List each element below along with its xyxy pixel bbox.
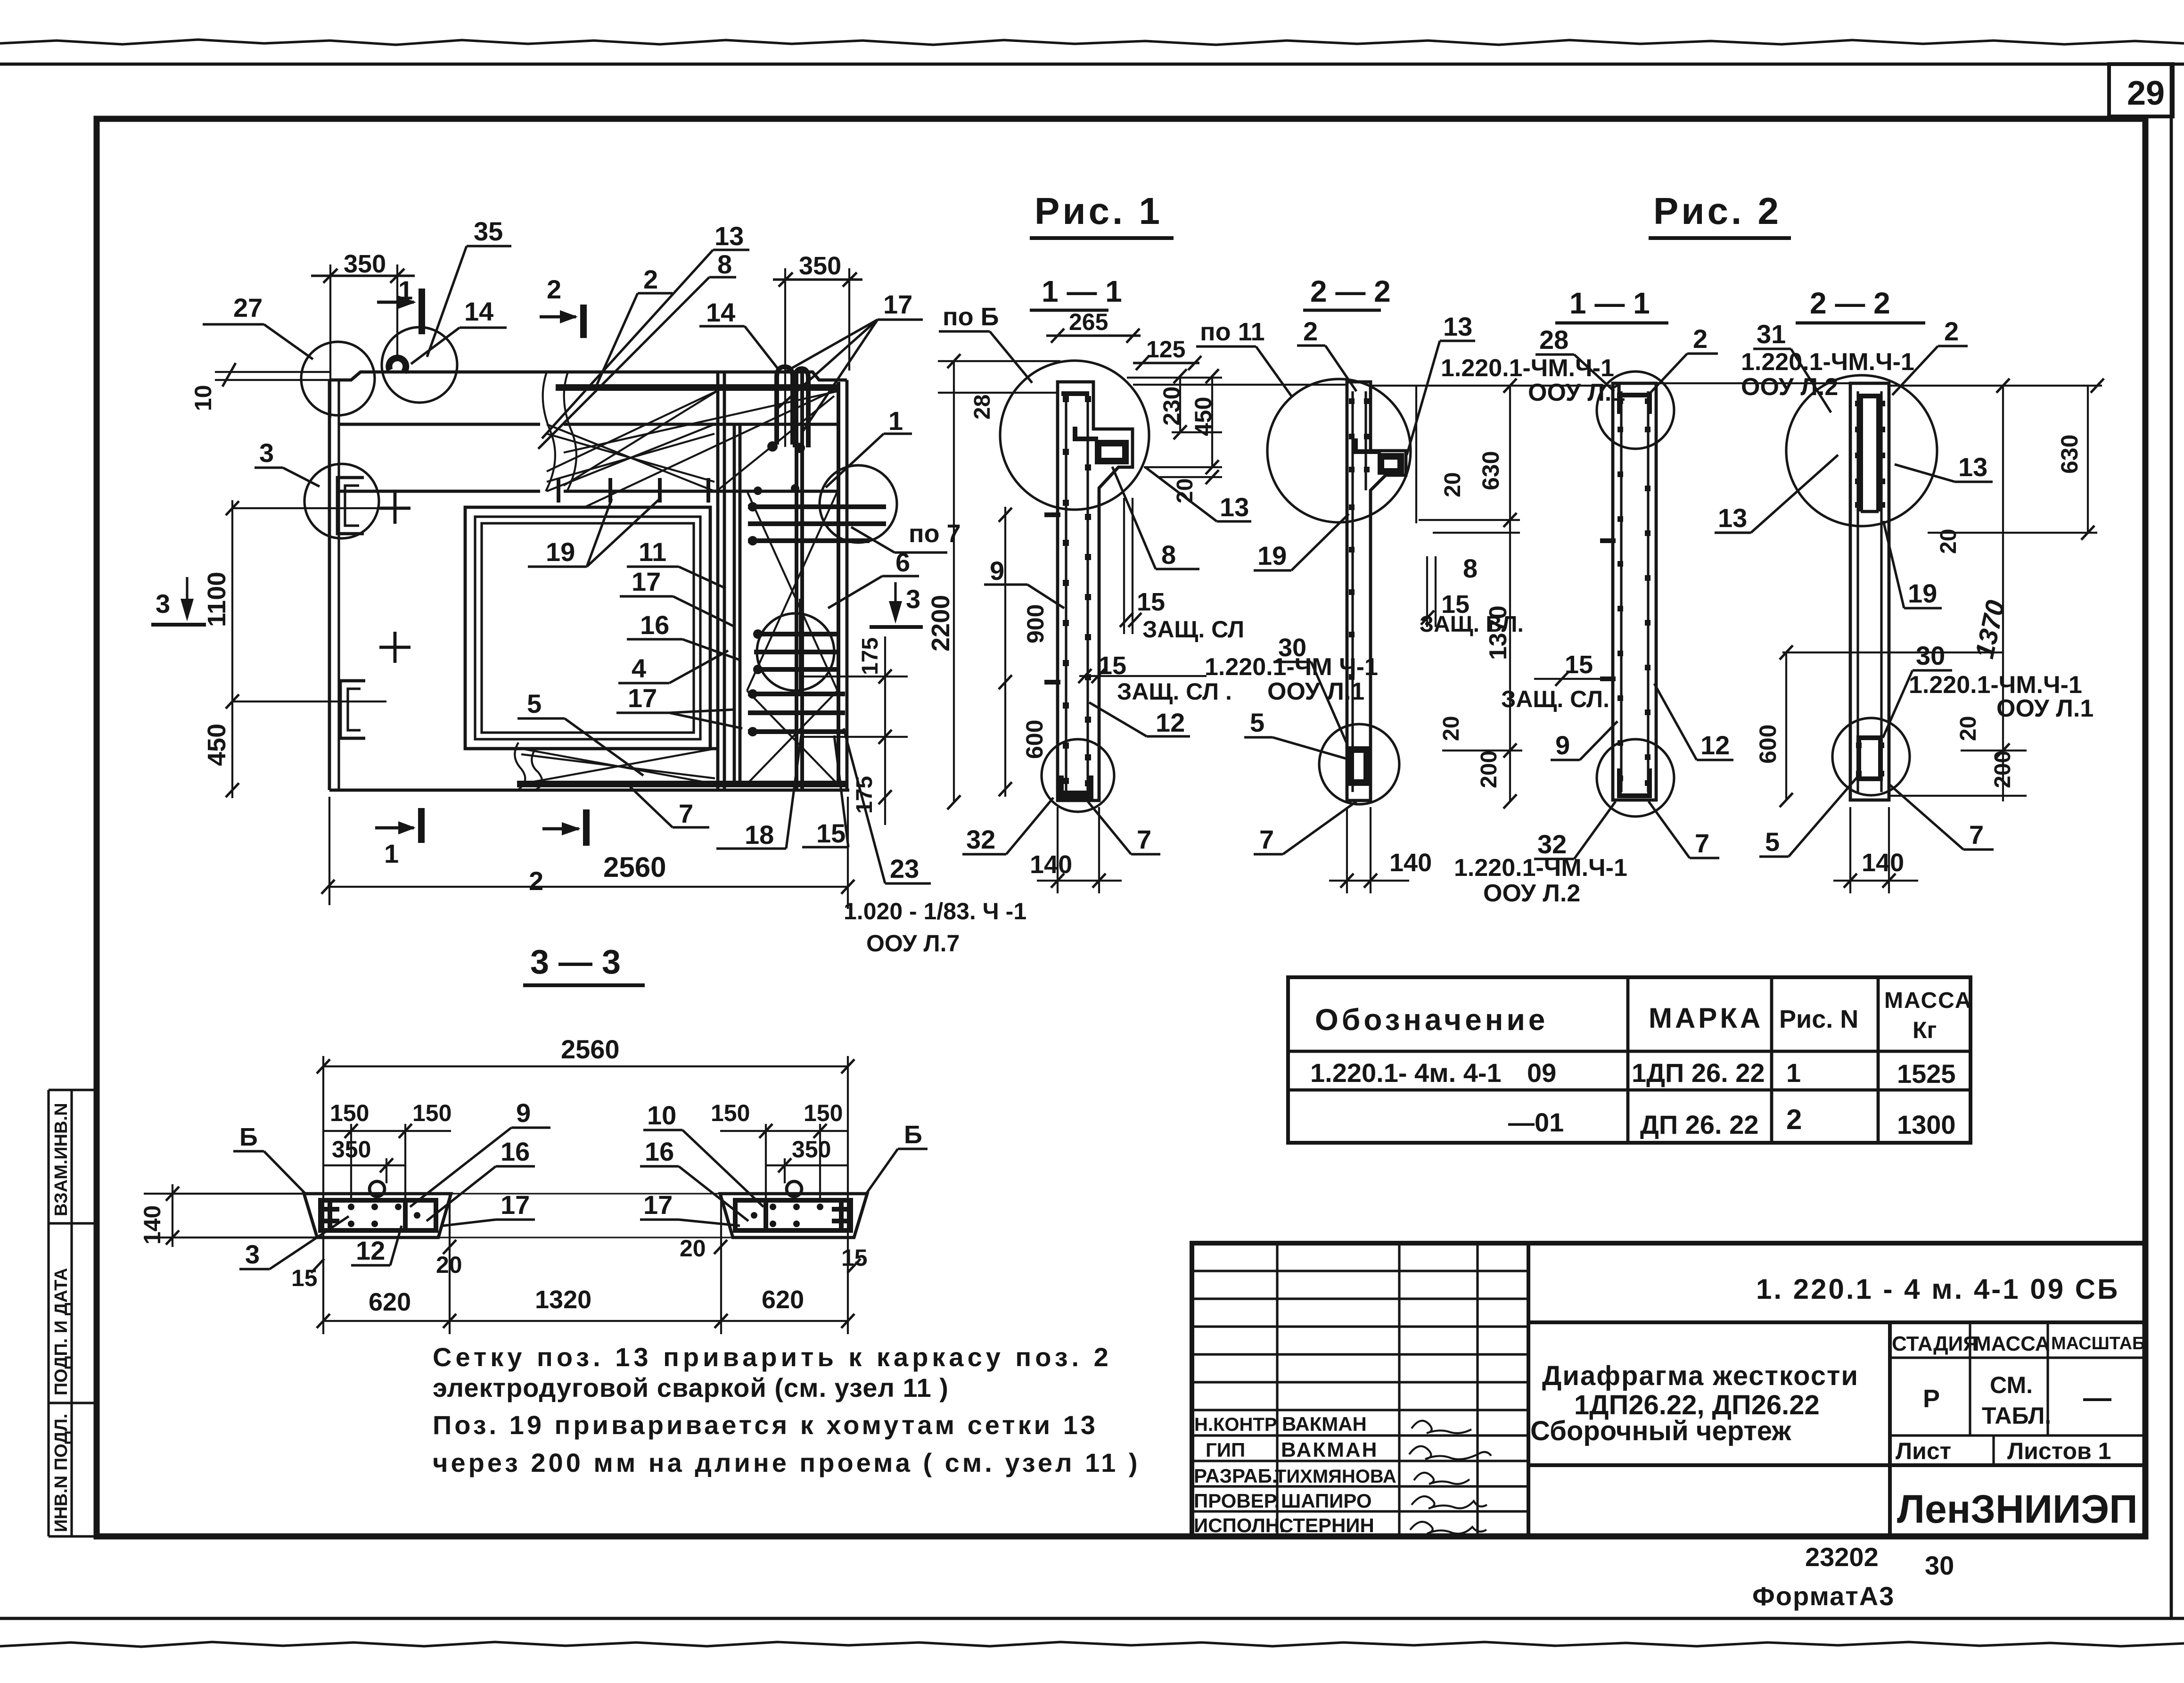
svg-text:ЗАЩ. ВЛ.: ЗАЩ. ВЛ. <box>1420 612 1524 637</box>
svg-text:Поз. 19 приваривается к хом: Поз. 19 приваривается к хомутам сетки 13 <box>433 1410 1098 1440</box>
title block <box>1192 1243 2145 1536</box>
svg-text:ТИХМЯНОВА: ТИХМЯНОВА <box>1275 1466 1396 1487</box>
dim 1100/450 left <box>203 500 395 798</box>
svg-text:ПОДП. И ДАТА: ПОДП. И ДАТА <box>51 1268 71 1395</box>
dims above left trapezoid <box>323 1100 452 1200</box>
svg-text:ООУ Л.7: ООУ Л.7 <box>866 930 960 957</box>
svg-text:2: 2 <box>1786 1104 1802 1135</box>
svg-text:20: 20 <box>1440 472 1465 497</box>
section mark 1 top <box>377 275 422 334</box>
svg-text:450: 450 <box>203 724 231 766</box>
left trapezoid 3-3 <box>304 1181 451 1237</box>
svg-text:3 — 3: 3 — 3 <box>530 943 621 981</box>
svg-text:29: 29 <box>2127 74 2165 112</box>
label 17 fan <box>777 289 923 434</box>
svg-text:350: 350 <box>792 1136 831 1163</box>
svg-text:350: 350 <box>799 252 841 280</box>
label 32 fig1 <box>962 798 1053 854</box>
label 7 fig2-11 <box>1649 801 1719 858</box>
dim 620 1320 620 <box>317 1263 854 1334</box>
strip section 1-1 fig2 <box>1613 383 1656 800</box>
label 8 fig1-11 <box>1112 467 1199 569</box>
labels 9 16 left <box>410 1098 550 1221</box>
svg-text:Б: Б <box>239 1123 258 1151</box>
svg-text:РАЗРАБ.: РАЗРАБ. <box>1194 1465 1277 1487</box>
detail circle 3 <box>304 464 379 538</box>
dims 900 600 fig1 <box>999 507 1060 797</box>
notes text <box>433 1342 1141 1477</box>
top stirrup 1-1 fig2 <box>1619 395 1650 414</box>
dim 140 3-3 <box>139 1184 179 1247</box>
bottom stirrup 2-2 fig1 <box>1351 750 1367 783</box>
X bracing right column <box>747 491 837 784</box>
svg-text:2: 2 <box>547 274 561 304</box>
label 7 fig1-11 <box>1088 801 1160 854</box>
svg-text:5: 5 <box>1250 708 1264 737</box>
dims 630 1370 right fig2 <box>1889 379 2104 801</box>
svg-text:6: 6 <box>895 547 910 577</box>
svg-text:9: 9 <box>1555 730 1570 760</box>
svg-text:12: 12 <box>1156 708 1185 737</box>
svg-text:ДП 26. 22: ДП 26. 22 <box>1640 1110 1758 1139</box>
svg-text:28: 28 <box>970 395 995 420</box>
svg-text:Лист: Лист <box>1896 1438 1951 1464</box>
page number box <box>2109 64 2173 116</box>
svg-text:3: 3 <box>259 438 274 468</box>
svg-text:150: 150 <box>711 1100 750 1126</box>
svg-text:1320: 1320 <box>535 1286 591 1314</box>
svg-text:Листов 1: Листов 1 <box>2007 1438 2111 1464</box>
svg-text:ЗАЩ. СЛ .: ЗАЩ. СЛ . <box>1117 678 1232 705</box>
panel edge lines between trapezoids <box>144 1193 304 1195</box>
label 1 right <box>826 406 912 487</box>
detail circle top 1-1 fig2 <box>1597 371 1674 449</box>
svg-text:9: 9 <box>990 556 1004 586</box>
label 13 fig1-11 <box>1145 467 1251 522</box>
svg-text:13: 13 <box>1443 312 1472 341</box>
X bracing top band <box>547 390 837 507</box>
svg-text:—01: —01 <box>1508 1107 1564 1137</box>
detail circle 14 <box>382 327 457 403</box>
vertical rebars right of window <box>718 372 740 790</box>
break lines top band <box>543 372 555 491</box>
svg-text:600: 600 <box>1755 725 1781 764</box>
svg-text:630: 630 <box>1478 451 1504 490</box>
svg-text:СМ.: СМ. <box>1990 1372 2033 1398</box>
svg-text:МАССА: МАССА <box>1884 988 1972 1013</box>
svg-text:7: 7 <box>1259 825 1274 854</box>
svg-text:ВАКМАН: ВАКМАН <box>1281 1438 1378 1461</box>
dims 15 20 bottom 3-3 <box>291 1193 868 1291</box>
svg-text:7: 7 <box>1969 820 1984 850</box>
svg-text:17: 17 <box>883 289 912 319</box>
svg-text:1. 220.1 - 4 м. 4-1 09 СБ: 1. 220.1 - 4 м. 4-1 09 СБ <box>1756 1273 2119 1305</box>
svg-text:17: 17 <box>628 683 657 713</box>
label 28 + ref fig2-11 <box>1441 325 1625 406</box>
labels 17 17 <box>443 1190 740 1226</box>
labels 3 12 bottom <box>239 1216 402 1269</box>
svg-text:8: 8 <box>1161 540 1176 569</box>
detail circle bottom 2-2 fig2 <box>1832 718 1910 795</box>
dim 2560 of 3-3 <box>317 1034 854 1334</box>
Fig.1 title <box>1030 190 1174 238</box>
cover lines 15 zasch.sl upper <box>1120 498 1244 643</box>
cover 15 zasch fig2-11 lower <box>1501 651 1611 712</box>
label 14 left <box>411 297 507 364</box>
label 19 fig2-22 <box>1883 521 1942 608</box>
svg-text:ЛенЗНИИЭП: ЛенЗНИИЭП <box>1897 1487 2138 1531</box>
svg-text:ВАКМАН: ВАКМАН <box>1282 1413 1367 1435</box>
svg-text:30: 30 <box>1925 1551 1954 1580</box>
section header 2-2 fig2 <box>1796 286 1925 323</box>
bottom stirrup 1-1 fig2 <box>1619 768 1650 796</box>
dim 125 <box>1133 336 1201 370</box>
detail circle top 2-2 fig1 <box>1267 379 1411 522</box>
svg-text:15: 15 <box>1565 651 1593 679</box>
detail circle 27 <box>301 342 375 415</box>
svg-text:150: 150 <box>804 1100 843 1126</box>
svg-text:1: 1 <box>384 839 399 868</box>
svg-text:16: 16 <box>645 1137 674 1166</box>
svg-text:140: 140 <box>1030 850 1072 879</box>
dim 20 fig1-11 <box>1159 470 1222 503</box>
rebar cluster C <box>748 694 845 732</box>
label 7 fig2-22 <box>1890 785 1994 850</box>
svg-text:1.220.1- 4м. 4-1: 1.220.1- 4м. 4-1 <box>1310 1058 1502 1088</box>
label 32 + ref fig2 <box>1454 801 1627 907</box>
X bracing bottom band <box>521 749 715 784</box>
sheet right edge line <box>2170 64 2173 1618</box>
strip section 2-2 fig2 <box>1850 383 1889 800</box>
label B left <box>233 1123 305 1194</box>
svg-text:ООУ Л.1: ООУ Л.1 <box>1996 695 2094 722</box>
svg-text:14: 14 <box>464 297 493 326</box>
label 3 left <box>255 438 320 487</box>
dim 600 between fig2 sections <box>1755 645 2003 807</box>
detail circle top 1-1 <box>1000 361 1149 510</box>
svg-text:1.220.1-ЧМ.Ч-1: 1.220.1-ЧМ.Ч-1 <box>1441 355 1614 382</box>
svg-text:31: 31 <box>1757 319 1786 349</box>
svg-text:14: 14 <box>706 297 735 327</box>
svg-text:2: 2 <box>643 264 658 294</box>
detail circle 1 <box>820 465 897 543</box>
label 13 fig1-22 <box>1407 312 1475 455</box>
svg-text:13: 13 <box>714 221 744 251</box>
svg-text:19: 19 <box>1257 541 1287 570</box>
dims above right trapezoid <box>711 1100 848 1200</box>
svg-text:12: 12 <box>1700 730 1730 760</box>
left margin stamp boxes <box>49 1090 97 1536</box>
svg-text:12: 12 <box>356 1236 385 1265</box>
break lines window bottom <box>515 742 525 790</box>
svg-text:5: 5 <box>1765 827 1780 857</box>
svg-text:4: 4 <box>632 653 646 683</box>
dims 20 200 right fig2 <box>1889 716 2027 796</box>
lifting hairpin loops <box>777 367 793 445</box>
svg-text:ТАБЛ.: ТАБЛ. <box>1982 1402 2051 1429</box>
centroid crosses <box>379 493 411 524</box>
labels 10 16 right <box>640 1100 764 1221</box>
svg-text:10: 10 <box>190 385 216 411</box>
dim 140 fig1-11 <box>1030 807 1122 893</box>
svg-text:Рис. 1: Рис. 1 <box>1035 190 1163 232</box>
svg-text:2: 2 <box>1303 316 1318 346</box>
section marks 1 2 bottom <box>375 808 586 896</box>
svg-text:350: 350 <box>344 250 386 278</box>
svg-text:ИСПОЛН.: ИСПОЛН. <box>1194 1514 1285 1536</box>
tie line fig2 sections <box>1656 382 1850 384</box>
svg-text:1.220.1-ЧМ.Ч-1: 1.220.1-ЧМ.Ч-1 <box>1454 854 1627 882</box>
svg-text:140: 140 <box>1389 849 1432 877</box>
svg-text:2560: 2560 <box>603 851 666 883</box>
svg-text:2: 2 <box>1693 324 1708 354</box>
svg-text:ШАПИРО: ШАПИРО <box>1281 1490 1372 1512</box>
label B right <box>866 1121 928 1194</box>
svg-text:19: 19 <box>1908 578 1937 608</box>
svg-text:7: 7 <box>679 799 693 828</box>
svg-text:2 — 2: 2 — 2 <box>1310 274 1391 308</box>
detail circle top 2-2 fig2 <box>1786 375 1937 526</box>
svg-text:20: 20 <box>1439 716 1464 741</box>
svg-text:по Б: по Б <box>943 303 999 331</box>
svg-text:125: 125 <box>1146 336 1185 363</box>
svg-text:2560: 2560 <box>561 1034 620 1064</box>
svg-text:1: 1 <box>888 406 903 436</box>
detail circle mid-right <box>757 613 834 691</box>
rebar cluster B <box>754 599 839 689</box>
label 5 fig1-22 <box>1244 708 1351 760</box>
svg-text:13: 13 <box>1958 452 1987 482</box>
svg-text:СТЕРНИН: СТЕРНИН <box>1279 1514 1374 1536</box>
svg-text:175: 175 <box>858 637 883 675</box>
svg-text:ООУ Л.2: ООУ Л.2 <box>1483 880 1580 907</box>
svg-text:—: — <box>2083 1382 2111 1413</box>
svg-text:140: 140 <box>1862 849 1904 877</box>
svg-text:ЗАЩ. СЛ: ЗАЩ. СЛ <box>1142 616 1244 643</box>
svg-text:по 11: по 11 <box>1200 318 1265 346</box>
svg-text:ООУ Л.1: ООУ Л.1 <box>1528 379 1625 406</box>
svg-text:09: 09 <box>1527 1058 1556 1088</box>
svg-text:20: 20 <box>1956 716 1981 741</box>
svg-text:через 200 мм на длине про: через 200 мм на длине проема ( см. узел … <box>433 1448 1141 1477</box>
dim 2560 bottom <box>321 797 854 909</box>
label 5 fig2-22 <box>1759 773 1861 857</box>
section header 1-1 fig2 <box>1555 286 1668 323</box>
svg-text:20: 20 <box>680 1235 706 1262</box>
svg-text:электродуговой сваркой (см: электродуговой сваркой (см. узел 11 ) <box>433 1373 949 1402</box>
rebar dots 1-1 fig2 <box>1617 398 1650 786</box>
svg-text:1: 1 <box>1786 1058 1801 1088</box>
svg-text:ЗАЩ. СЛ.: ЗАЩ. СЛ. <box>1501 686 1609 712</box>
dim 10 top-left <box>190 363 349 411</box>
svg-text:ГИП: ГИП <box>1206 1439 1245 1461</box>
3-3 title <box>523 943 645 985</box>
svg-text:2200: 2200 <box>927 595 955 652</box>
label 2 fig2-11 <box>1650 324 1718 394</box>
svg-text:МАРКА: МАРКА <box>1649 1002 1763 1034</box>
labels 13 and 8 top <box>538 221 749 449</box>
rebar dots 2-2 fig1 <box>1349 398 1370 680</box>
bottom chord bar <box>517 781 848 787</box>
rebar cluster A (detail 1) <box>748 507 886 541</box>
svg-text:1ДП 26. 22: 1ДП 26. 22 <box>1632 1058 1765 1088</box>
mesh ticks above window <box>558 478 708 503</box>
svg-text:27: 27 <box>233 293 263 322</box>
label 13 right fig2 <box>1895 452 1993 482</box>
svg-text:3: 3 <box>245 1239 260 1269</box>
bottom stirrup 1-1 <box>1061 775 1091 797</box>
cover 15 zasch fig2-11 upper <box>1420 553 1524 637</box>
svg-text:Б: Б <box>904 1121 922 1149</box>
svg-text:600: 600 <box>1021 720 1048 759</box>
dim 350 top-right <box>773 252 862 447</box>
svg-text:200: 200 <box>1990 751 2015 788</box>
svg-text:16: 16 <box>501 1137 530 1166</box>
svg-text:265: 265 <box>1069 309 1108 335</box>
top stirrup 1-1 <box>1061 391 1089 396</box>
right trapezoid 3-3 <box>720 1181 867 1237</box>
window opening <box>465 507 710 749</box>
section mark 3 right <box>870 582 923 627</box>
svg-text:Кг: Кг <box>1913 1017 1937 1043</box>
svg-text:620: 620 <box>369 1288 411 1316</box>
label 31 + ref fig2-22 <box>1741 319 1914 412</box>
svg-text:1.020 - 1/83. Ч -1: 1.020 - 1/83. Ч -1 <box>844 898 1026 924</box>
dims 175 175 right <box>801 636 908 825</box>
svg-text:Рис. 2: Рис. 2 <box>1653 190 1782 232</box>
svg-text:ФорматА3: ФорматА3 <box>1752 1581 1895 1611</box>
svg-text:1100: 1100 <box>203 572 231 627</box>
strip section 2-2 fig1 <box>1347 382 1406 800</box>
svg-text:8: 8 <box>1463 553 1478 583</box>
svg-text:19: 19 <box>546 537 575 567</box>
svg-text:30: 30 <box>1916 641 1945 670</box>
top chord bar <box>556 384 838 391</box>
torn paper edge top <box>0 40 2184 45</box>
label 12 fig2 <box>1654 684 1733 760</box>
svg-text:17: 17 <box>643 1190 673 1220</box>
svg-text:Диафрагма жесткости: Диафрагма жесткости <box>1542 1361 1859 1391</box>
svg-text:23202: 23202 <box>1805 1542 1879 1572</box>
svg-text:ПРОВЕР.: ПРОВЕР. <box>1194 1490 1280 1512</box>
svg-text:11: 11 <box>639 537 666 567</box>
svg-text:450: 450 <box>1190 397 1216 436</box>
section header 2-2 fig1 <box>1303 274 1391 310</box>
svg-text:7: 7 <box>1137 825 1151 854</box>
svg-text:9: 9 <box>516 1098 531 1128</box>
flange rebar hook <box>1075 427 1125 461</box>
svg-text:16: 16 <box>640 610 669 640</box>
svg-text:2 — 2: 2 — 2 <box>1810 286 1890 320</box>
specification table <box>1288 977 1972 1143</box>
svg-text:13: 13 <box>1220 492 1249 522</box>
svg-text:Сборочный чертеж: Сборочный чертеж <box>1530 1416 1791 1446</box>
svg-text:18: 18 <box>745 820 774 850</box>
svg-text:ИНВ.N ПОДЛ.: ИНВ.N ПОДЛ. <box>51 1414 71 1532</box>
svg-text:ООУ Л.2: ООУ Л.2 <box>1741 373 1838 401</box>
flange rebar hook 2-2 fig1 <box>1355 438 1401 471</box>
label 7 bottom <box>630 787 709 828</box>
svg-text:13: 13 <box>1718 503 1747 533</box>
svg-text:1525: 1525 <box>1897 1059 1956 1089</box>
dim 350 top-left <box>311 250 415 418</box>
label 9 fig1 <box>984 556 1064 608</box>
label 35 <box>427 216 511 357</box>
svg-text:17: 17 <box>501 1190 530 1220</box>
svg-text:17: 17 <box>632 567 661 596</box>
detail circle bottom 1-1 fig2 <box>1597 739 1674 817</box>
mid tick 1-1 fig2 <box>1600 538 1616 543</box>
label 2 <box>594 264 673 390</box>
svg-text:Н.КОНТР: Н.КОНТР <box>1194 1414 1277 1435</box>
label po 11 <box>1196 318 1291 396</box>
labels 19 11 17 16 4 17 5 inside window <box>517 499 742 775</box>
svg-text:150: 150 <box>330 1100 369 1126</box>
svg-text:1 — 1: 1 — 1 <box>1042 274 1122 308</box>
Fig.2 title <box>1649 190 1791 238</box>
bracket lower <box>340 681 365 738</box>
svg-text:28: 28 <box>1539 325 1568 355</box>
main drawing frame <box>97 119 2145 1536</box>
labels 18 15 bottom <box>716 735 848 850</box>
svg-text:1.220.1-ЧМ.Ч-1: 1.220.1-ЧМ.Ч-1 <box>1741 348 1914 376</box>
label 13 mid fig2 <box>1715 455 1838 533</box>
svg-text:Сетку поз. 13 приварить к: Сетку поз. 13 приварить к каркасу поз. 2 <box>433 1342 1112 1372</box>
svg-text:2: 2 <box>1944 316 1959 346</box>
svg-text:3: 3 <box>156 589 170 619</box>
svg-text:200: 200 <box>1477 751 1502 788</box>
label 27 <box>203 293 313 359</box>
svg-text:23: 23 <box>890 854 919 883</box>
rebar dots 1-1 <box>1063 396 1091 786</box>
cover 15 zasch.sl lower fig1 <box>1078 652 1232 705</box>
dim 450 fig1 <box>1127 369 1222 474</box>
section header 1-1 <box>1030 274 1122 310</box>
svg-text:8: 8 <box>717 249 732 279</box>
dim 140 fig2-22 <box>1833 807 1918 893</box>
label 14 right <box>699 297 779 370</box>
detail circle bottom 2-2 fig1 <box>1319 724 1399 804</box>
label 2 fig2-22 <box>1892 316 1968 395</box>
svg-text:15: 15 <box>816 818 846 848</box>
svg-text:32: 32 <box>966 825 995 854</box>
label 19 fig1-22 <box>1254 514 1349 570</box>
label 9 fig2 <box>1551 721 1617 760</box>
dim 2200 fig1 <box>927 354 1060 809</box>
strip section 1-1 <box>1058 382 1133 800</box>
svg-text:620: 620 <box>762 1286 804 1314</box>
svg-text:1 — 1: 1 — 1 <box>1569 286 1650 320</box>
svg-text:Обозначение: Обозначение <box>1315 1003 1548 1037</box>
svg-text:7: 7 <box>1695 828 1709 858</box>
svg-text:Рис. N: Рис. N <box>1779 1005 1858 1033</box>
svg-text:ООУ Л.1: ООУ Л.1 <box>1267 678 1364 705</box>
svg-text:15: 15 <box>1137 588 1165 616</box>
svg-text:1300: 1300 <box>1897 1110 1956 1139</box>
dim 265 <box>1046 309 1141 343</box>
svg-text:20: 20 <box>1936 529 1961 554</box>
svg-text:230: 230 <box>1158 387 1185 426</box>
bracket detail 3 upper <box>337 478 364 534</box>
torn paper edge bottom <box>0 1642 2184 1647</box>
dim 140 fig1-22 <box>1329 807 1432 893</box>
label 30 + ref fig2-22 <box>1883 641 2094 738</box>
svg-text:150: 150 <box>412 1100 452 1126</box>
svg-text:Р: Р <box>1923 1385 1940 1413</box>
bottom stirrup 2-2 fig2 <box>1859 738 1880 779</box>
label 23 and doc ref <box>844 728 1026 957</box>
svg-text:МАССА: МАССА <box>1974 1332 2050 1355</box>
